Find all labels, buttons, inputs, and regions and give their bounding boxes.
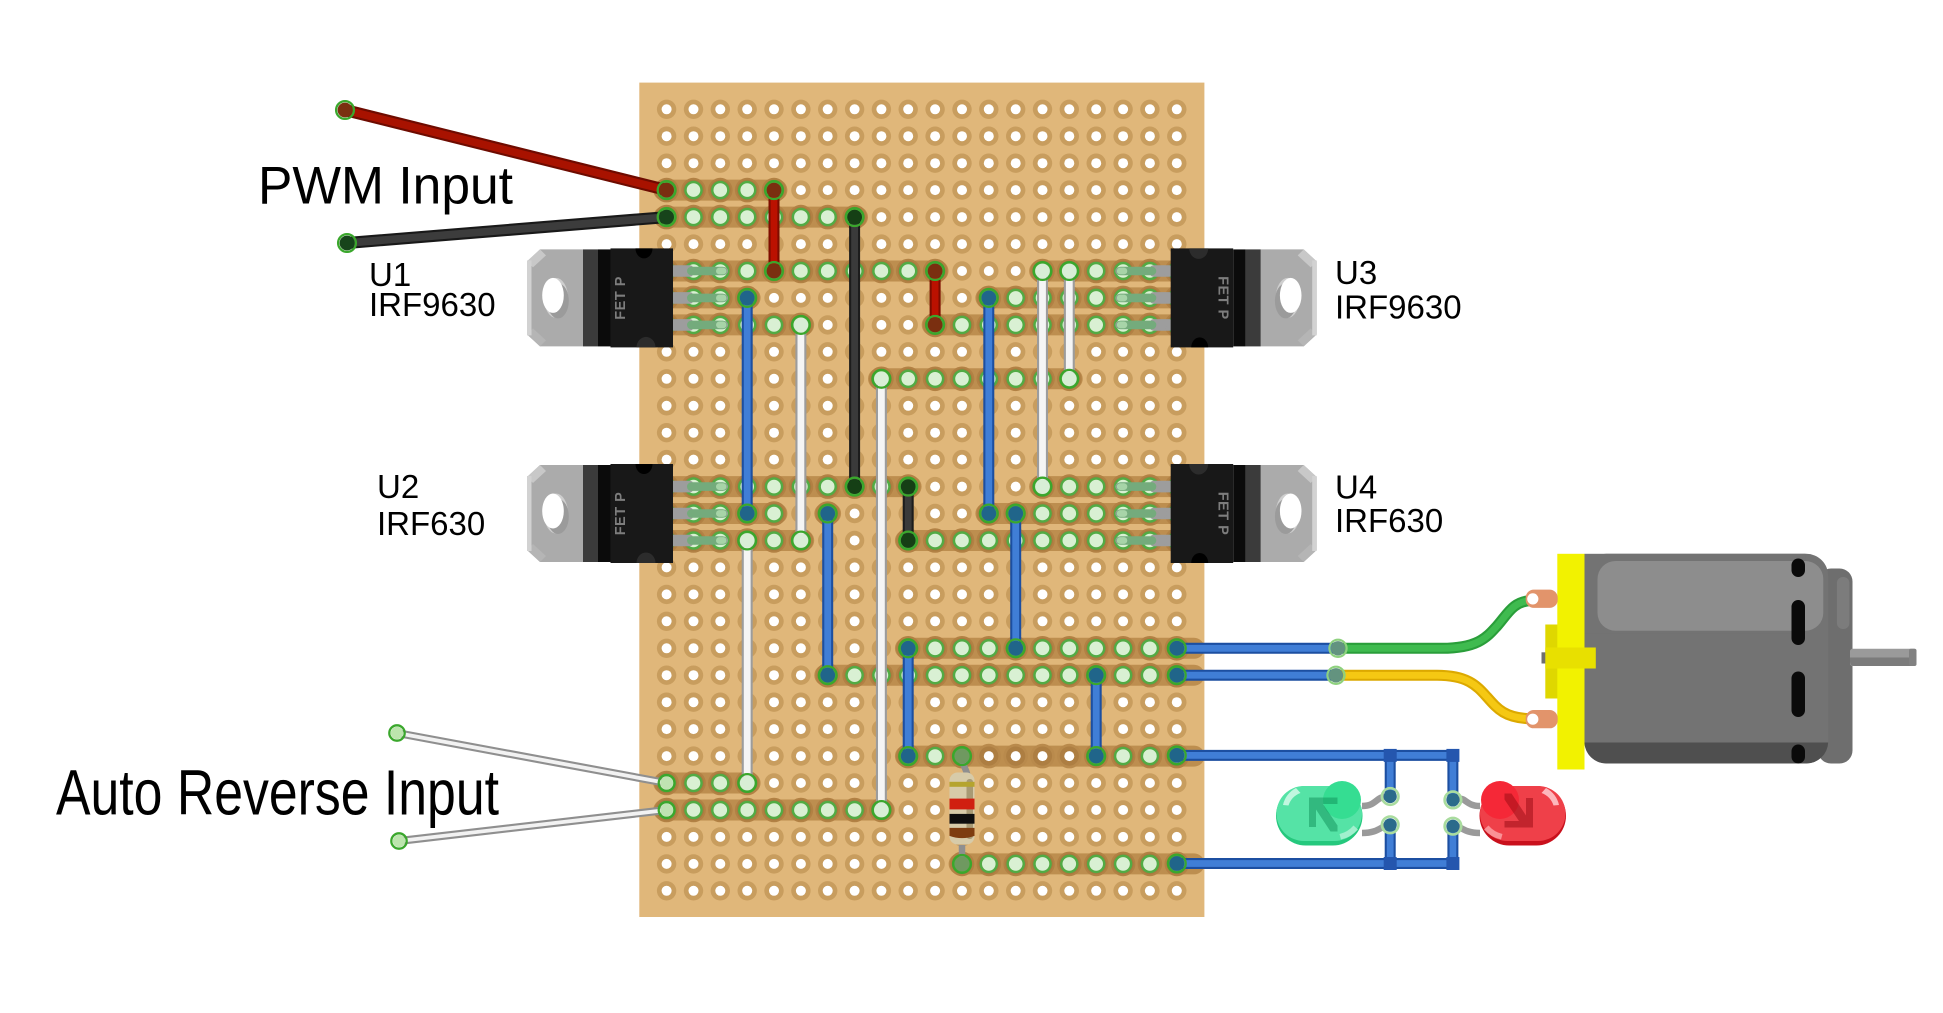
svg-text:FET P: FET P xyxy=(613,276,629,320)
svg-text:PWM Input: PWM Input xyxy=(258,156,513,215)
svg-text:Auto Reverse Input: Auto Reverse Input xyxy=(56,757,499,829)
svg-text:FET P: FET P xyxy=(1215,492,1231,536)
svg-text:IRF630: IRF630 xyxy=(377,505,485,542)
svg-text:IRF9630: IRF9630 xyxy=(369,286,496,323)
svg-text:FET P: FET P xyxy=(1215,276,1231,320)
svg-text:U3: U3 xyxy=(1335,254,1377,291)
svg-text:FET P: FET P xyxy=(613,492,629,536)
svg-text:IRF9630: IRF9630 xyxy=(1335,288,1462,325)
svg-text:U2: U2 xyxy=(377,468,419,505)
svg-text:U4: U4 xyxy=(1335,468,1377,505)
svg-text:IRF630: IRF630 xyxy=(1335,502,1443,539)
